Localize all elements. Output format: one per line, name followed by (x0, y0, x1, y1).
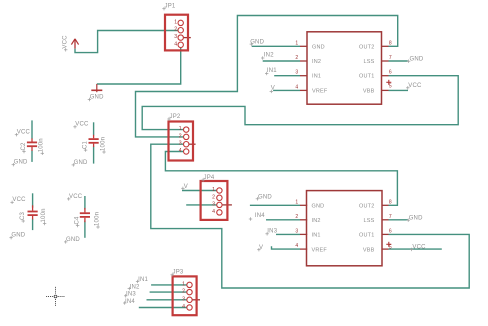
svg-text:OUT2: OUT2 (359, 44, 374, 50)
svg-text:OUT2: OUT2 (359, 203, 374, 209)
svg-text:VCC: VCC (12, 197, 26, 203)
svg-text:IN4: IN4 (255, 213, 265, 219)
svg-text:VBB: VBB (363, 88, 375, 94)
svg-text:VCC: VCC (408, 83, 422, 89)
svg-text:LSS: LSS (364, 218, 375, 224)
svg-text:100n: 100n (41, 208, 47, 222)
svg-text:IN1: IN1 (312, 74, 321, 80)
svg-text:JP1: JP1 (165, 4, 176, 10)
svg-text:VCC: VCC (69, 194, 83, 200)
svg-text:V: V (184, 184, 188, 190)
svg-text:GND: GND (14, 160, 28, 166)
svg-text:1: 1 (295, 199, 298, 205)
svg-text:JP2: JP2 (170, 114, 181, 120)
svg-text:GND: GND (409, 215, 423, 221)
svg-text:VREF: VREF (312, 247, 328, 253)
svg-text:7: 7 (389, 214, 392, 220)
svg-text:C2: C2 (21, 142, 27, 151)
svg-text:4: 4 (295, 243, 298, 249)
svg-text:3: 3 (295, 228, 298, 234)
svg-text:VCC: VCC (62, 35, 68, 49)
svg-text:5: 5 (389, 84, 392, 90)
svg-text:C4: C4 (75, 216, 81, 225)
svg-text:IN1: IN1 (138, 277, 148, 283)
svg-text:IN2: IN2 (312, 59, 321, 65)
svg-text:1: 1 (182, 281, 185, 287)
svg-text:VCC: VCC (412, 245, 426, 251)
svg-text:IN2: IN2 (312, 218, 321, 224)
svg-text:IN3: IN3 (126, 292, 136, 298)
svg-text:1: 1 (212, 187, 215, 193)
svg-text:4: 4 (182, 304, 185, 310)
svg-text:GND: GND (312, 203, 325, 209)
svg-text:VREF: VREF (312, 88, 328, 94)
svg-text:1: 1 (295, 40, 298, 46)
svg-text:5: 5 (389, 244, 392, 250)
svg-text:2: 2 (295, 55, 298, 61)
svg-text:4: 4 (212, 209, 215, 215)
svg-text:3: 3 (182, 296, 185, 302)
svg-text:2: 2 (179, 133, 182, 139)
svg-text:3: 3 (295, 70, 298, 76)
svg-text:6: 6 (389, 228, 392, 234)
svg-text:LSS: LSS (364, 59, 375, 65)
svg-text:2: 2 (295, 214, 298, 220)
svg-text:IN3: IN3 (267, 229, 277, 235)
svg-text:GND: GND (11, 233, 25, 239)
svg-text:4: 4 (179, 148, 182, 154)
svg-text:2: 2 (174, 27, 177, 33)
svg-text:100n: 100n (95, 212, 101, 226)
svg-text:7: 7 (389, 55, 392, 61)
svg-text:IN4: IN4 (125, 299, 135, 305)
svg-text:GND: GND (410, 57, 424, 63)
svg-text:C3: C3 (20, 211, 26, 220)
svg-text:GND: GND (250, 40, 264, 46)
svg-text:2: 2 (212, 194, 215, 200)
svg-text:3: 3 (212, 201, 215, 207)
svg-text:VCC: VCC (17, 130, 31, 136)
svg-text:3: 3 (174, 34, 177, 40)
svg-text:GND: GND (66, 237, 80, 243)
svg-text:8: 8 (389, 199, 392, 205)
svg-text:1: 1 (179, 126, 182, 132)
svg-text:GND: GND (258, 195, 272, 201)
svg-text:2: 2 (182, 289, 185, 295)
svg-text:IN2: IN2 (130, 284, 140, 290)
svg-text:GND: GND (312, 44, 325, 50)
svg-text:100n: 100n (39, 138, 45, 152)
svg-text:6: 6 (389, 70, 392, 76)
svg-text:VCC: VCC (75, 122, 89, 128)
svg-text:8: 8 (389, 40, 392, 46)
svg-text:JP3: JP3 (173, 270, 184, 276)
svg-text:100n: 100n (101, 137, 107, 151)
svg-text:3: 3 (179, 141, 182, 147)
svg-text:IN1: IN1 (312, 233, 321, 239)
svg-text:C1: C1 (83, 140, 89, 149)
svg-text:1: 1 (174, 19, 177, 25)
svg-text:OUT1: OUT1 (359, 74, 374, 80)
svg-text:IN1: IN1 (267, 68, 277, 74)
svg-text:JP4: JP4 (204, 175, 215, 181)
svg-text:4: 4 (295, 84, 298, 90)
svg-text:GND: GND (90, 95, 104, 101)
svg-text:GND: GND (74, 160, 88, 166)
svg-text:4: 4 (174, 41, 177, 47)
svg-text:OUT1: OUT1 (359, 233, 374, 239)
svg-text:VBB: VBB (363, 247, 375, 253)
svg-text:IN2: IN2 (264, 53, 274, 59)
